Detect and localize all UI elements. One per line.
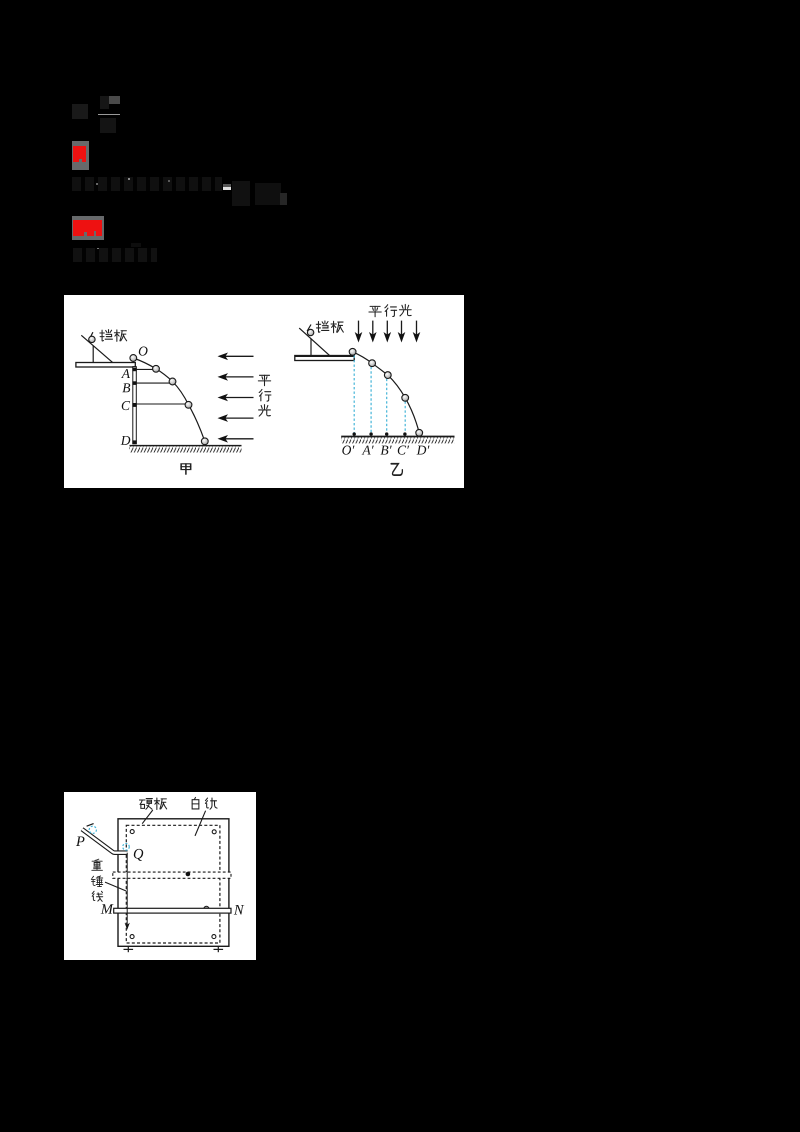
outer board xyxy=(118,819,229,947)
left ground xyxy=(130,446,242,453)
dashed ball at Q xyxy=(123,844,130,851)
inner dashed paper xyxy=(126,825,220,943)
right trajectory balls xyxy=(349,348,422,436)
left trajectory balls xyxy=(130,355,208,445)
red tag 1 xyxy=(72,141,90,170)
left ball on incline xyxy=(89,336,95,342)
left table xyxy=(76,363,135,368)
right trajectory xyxy=(353,352,420,433)
right ball on incline xyxy=(307,329,313,335)
corner holes xyxy=(130,830,216,939)
FIGURE 2 xyxy=(64,792,256,960)
left incline xyxy=(81,335,113,363)
down arrows xyxy=(359,321,417,336)
left arrows xyxy=(224,356,254,439)
甲 xyxy=(181,464,191,474)
leader lines xyxy=(142,810,153,824)
dot on strip xyxy=(186,872,191,877)
挡板 left xyxy=(100,330,113,341)
labels O' A' B' C' D' xyxy=(342,446,354,455)
P Q labels xyxy=(76,837,85,846)
faint text line 3 xyxy=(72,177,222,191)
白纸 label xyxy=(192,797,199,808)
red tag 2 xyxy=(72,216,104,240)
leader to plumb xyxy=(105,882,126,891)
平行光 vertical xyxy=(258,375,270,385)
right incline xyxy=(299,328,330,356)
乙 xyxy=(391,464,402,475)
left support xyxy=(92,346,94,363)
feet xyxy=(124,946,224,952)
dashed ball at P xyxy=(89,826,96,833)
gray ball above MN bar xyxy=(204,906,209,911)
MN bar xyxy=(114,908,231,913)
重锤线 vertical label xyxy=(92,859,103,870)
left baffle tick xyxy=(89,332,93,339)
硬板 label xyxy=(139,799,152,810)
tube cap xyxy=(87,824,94,827)
ground dots xyxy=(353,432,407,435)
挡板 right xyxy=(316,321,329,332)
平行光 horizontal xyxy=(369,306,381,316)
FIGURE 1 xyxy=(64,295,464,488)
dashed strip xyxy=(113,872,231,878)
right ground xyxy=(341,437,454,443)
labels O A B C D xyxy=(139,347,148,356)
faint text line 5 xyxy=(73,248,157,262)
M N labels xyxy=(101,904,114,913)
tube PQ xyxy=(82,829,128,853)
right baffle tick xyxy=(307,325,311,332)
level lines xyxy=(136,369,185,404)
left strip xyxy=(133,367,137,444)
plumb line with arrow xyxy=(126,853,128,925)
faint formula block 1 xyxy=(72,104,88,119)
right support xyxy=(310,339,312,356)
cyan dashed verticals xyxy=(354,356,405,434)
left trajectory xyxy=(133,358,205,441)
right table xyxy=(295,356,354,361)
